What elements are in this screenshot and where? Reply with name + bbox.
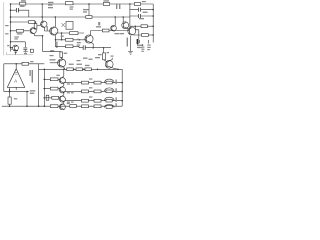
ladder left bus: [43, 69, 45, 106]
label around R14: [98, 52, 109, 55]
wire output vertical: [26, 92, 28, 107]
label 0.22 ohm vertical: [127, 38, 128, 47]
resistor R1: [20, 2, 26, 5]
ladder row 3: vertical resistor R26v: [46, 95, 49, 100]
label right of R15: [30, 61, 33, 62]
resistor R21 row1: [82, 81, 89, 84]
ladder row 1: base wire and resistor R20: [44, 78, 60, 81]
relay box with X mark: [62, 22, 74, 30]
resistor R33 row4 extra: [70, 105, 77, 108]
ladder top rail: [39, 68, 123, 70]
label vertical text right of op-amp: [29, 70, 33, 83]
resistor R14 vertical: [103, 53, 106, 60]
label chain resistor values: [50, 50, 90, 66]
resistor R10 emitter to bus: [142, 34, 154, 37]
label near output: [14, 90, 36, 99]
label Q5 text: [115, 33, 125, 34]
label right of R4: [142, 1, 146, 2]
resistor R10a collector to bus: [141, 25, 153, 28]
node bus-left junction dots: [10, 3, 12, 48]
resistor R13 vertical: [60, 52, 63, 59]
node dots right bus: [121, 82, 123, 102]
label text above left cluster: [14, 36, 19, 39]
transistor Q11 row1: [59, 69, 122, 83]
label op-amp +/- marks: [15, 72, 18, 74]
capacitor C6 horizontal plates: [23, 48, 27, 53]
inductor L2 row2 loop: [105, 88, 115, 93]
transistor Q5 small: [111, 17, 117, 31]
wire cap net down to R14: [103, 48, 105, 53]
label R3 value: [104, 0, 110, 1]
node rail2 dots: [41, 16, 124, 18]
capacitor C3: [130, 14, 153, 18]
wire collector node down to C5: [135, 26, 139, 38]
node dot on Q4 base wire: [79, 39, 80, 40]
wire bus to C6: [11, 42, 26, 48]
label between wires: [61, 36, 64, 37]
op-amp box top wire: [4, 63, 45, 65]
capacitor C2: [130, 8, 153, 12]
label below C6: [24, 51, 28, 54]
transistor Q10 mid-right: [104, 58, 118, 70]
wire faint divider: [6, 52, 33, 55]
wire Q7 collector net y26.2: [130, 25, 141, 27]
node rail1 dots: [41, 3, 130, 5]
label C5 value: [137, 45, 143, 49]
battery B1 symbol: [14, 51, 19, 55]
transistor Q4 output: [85, 31, 93, 48]
resistor R22 row1: [94, 81, 101, 84]
label small marks right of box: [98, 22, 100, 25]
node dot: [103, 47, 105, 49]
capacitor C5 electrolytic: [137, 38, 140, 45]
capacitor C4: [83, 45, 85, 50]
label row1 texts: [67, 78, 117, 84]
inductor L3 row3 loop: [105, 97, 115, 102]
resistor R16v vertical: [8, 97, 11, 106]
resistor R5 on rail2: [86, 4, 92, 18]
wire y39.8 with resistor R11 to Q4 base: [56, 38, 87, 41]
wire from op-amp box down to bottom rail: [38, 64, 40, 106]
label R13: [64, 53, 67, 54]
label row2 texts: [67, 87, 117, 93]
ladder row 3: base wire and resistor R27: [44, 96, 60, 99]
resistor R29 row3: [94, 99, 101, 102]
wire vertical link x61.6: [61, 33, 63, 40]
label Q10: [77, 56, 114, 62]
ladder row 2: base wire and resistor R23: [44, 87, 60, 90]
resistor R31 row4: [82, 105, 89, 108]
resistor R18 chain: [76, 68, 82, 71]
transistor Q3 driver: [50, 17, 58, 47]
node dot Q4 emitter junction: [92, 47, 94, 49]
label left margin marks: [5, 25, 9, 46]
transistor Q13 row3: [59, 91, 122, 102]
label arrow marks left of Q4 base: [77, 39, 81, 46]
label above R5: [83, 9, 89, 13]
label +40V supply: [116, 4, 120, 10]
resistor R32 row4: [94, 105, 101, 108]
label row3 texts: [67, 96, 117, 102]
label R7 value: [17, 33, 23, 34]
resistor R17 chain: [67, 68, 73, 71]
wire y47 with resistor R12: [56, 45, 112, 48]
label C2 C3 values: [139, 12, 148, 20]
node dot y39.8: [55, 39, 57, 41]
resistor R2: [65, 2, 73, 5]
wire Q2 emitter to vertical: [35, 36, 43, 52]
wire from Q2 emitter net down to R13: [43, 51, 62, 53]
wire Q7 emitter down: [130, 36, 132, 52]
resistor R28 row3: [82, 99, 89, 102]
ground symbol right-mid: [128, 52, 133, 55]
bottom ground rail: [2, 105, 122, 107]
op-amp U1 triangle: [7, 64, 24, 88]
transistor Q1 top-left: [41, 4, 52, 31]
inductor L1 row1 loop: [105, 79, 115, 84]
resistor R7 base of Q2: [11, 29, 30, 32]
wire second rail: [11, 16, 131, 18]
transistor Q12 row2: [59, 83, 122, 93]
resistor R7v vertical: [34, 22, 37, 29]
inductor L4 row4 loop: [105, 104, 115, 108]
label Q3 designator vertical texts: [47, 26, 58, 48]
transistor Q2: [30, 28, 36, 36]
capacitor C1 with input wire: [11, 8, 29, 17]
op-amp box left wire: [3, 64, 5, 92]
node dots lower op-amp rail: [9, 91, 28, 93]
resistor R3: [103, 3, 109, 6]
transistor Q8 left cluster: [11, 45, 19, 51]
resistor R19 chain: [85, 68, 91, 71]
resistor R9: [70, 32, 78, 35]
wire op-amp inputs to lower rail: [4, 87, 29, 97]
wire left supply bus: [10, 4, 12, 52]
label R8: [96, 26, 101, 27]
node dots on link: [61, 32, 63, 40]
node dot collector net: [135, 25, 137, 27]
wire y33 to R9: [55, 32, 84, 34]
label left cluster text: [11, 49, 13, 50]
resistor R4: [134, 3, 140, 6]
transistor Q6: [122, 17, 129, 31]
label above R20: [56, 75, 59, 76]
wire y22 with resistor R6: [11, 21, 36, 24]
label R1 value above and below: [20, 0, 26, 7]
transistor Q14 row4: [59, 101, 65, 110]
node dots bottom rail: [9, 105, 45, 107]
resistor R24 row2: [82, 90, 89, 93]
label bottom texts: [67, 103, 117, 107]
wire y30.5 with resistor R8: [91, 29, 130, 32]
wire vertical from rail1 to Q7 collector: [129, 4, 131, 27]
wire R7v to Q1 base: [37, 25, 42, 26]
wire right supply bus: [152, 4, 154, 43]
resistor R25 row2: [94, 90, 101, 93]
node dot R7v top: [35, 21, 37, 23]
wire top supply rail: [11, 3, 154, 5]
label R2 values: [48, 2, 74, 10]
label Q9: [50, 55, 56, 61]
diode D1 stack: [141, 40, 150, 52]
ladder row 4 bottom: resistor R30: [50, 105, 58, 108]
node dots ladder top rail: [44, 69, 119, 71]
zener Z1 small rect: [30, 49, 33, 52]
transistor Q7 output right: [128, 27, 142, 35]
wire left frame line: [3, 2, 5, 55]
svg-text:A: A: [14, 79, 17, 84]
node bus-right junction dots: [152, 9, 154, 36]
resistor R15 feedback: [22, 62, 29, 65]
transistor Q9 mid-center: [50, 59, 66, 70]
wire inverting input: [9, 88, 11, 92]
node dot above op-amp: [15, 63, 17, 65]
right ladder bus: [121, 69, 123, 106]
node dots ladder left bus: [44, 79, 46, 99]
node dot emitter wire: [42, 35, 44, 37]
